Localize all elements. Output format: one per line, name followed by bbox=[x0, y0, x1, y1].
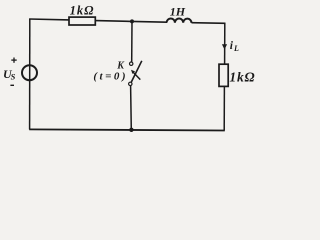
wire: left branch vertical (Us branch) bbox=[29, 19, 31, 129]
switch K motion arrow head bbox=[131, 70, 135, 74]
switch K blade (open position) bbox=[131, 61, 142, 83]
wire: switch branch, node A down to switch top contact bbox=[131, 21, 133, 62]
svg-text:1H: 1H bbox=[170, 4, 186, 18]
node A junction dot (top of switch branch) bbox=[130, 19, 134, 23]
wire: top, R1 to node A bbox=[95, 20, 132, 23]
wire: top, inductor to right corner bbox=[192, 22, 226, 25]
svg-text:1kΩ: 1kΩ bbox=[70, 4, 95, 18]
wire: right branch, corner down to R2 bbox=[224, 23, 226, 64]
resistor R2 1kOhm body (right branch) bbox=[219, 64, 228, 86]
wire: right branch, R2 down to bottom corner bbox=[223, 86, 225, 131]
voltage source Us circle bbox=[22, 65, 37, 80]
resistor R1 1kOhm body bbox=[69, 17, 95, 25]
switch K top contact bbox=[130, 62, 133, 65]
current arrow iL head bbox=[222, 44, 227, 49]
wire: top, node A to inductor L bbox=[132, 20, 167, 23]
node B junction dot (bottom of switch branch) bbox=[129, 128, 133, 132]
svg-text:L: L bbox=[233, 44, 239, 53]
source polarity plus bbox=[11, 59, 16, 61]
source polarity minus bbox=[10, 84, 14, 86]
wire: bottom rail bbox=[29, 129, 225, 130]
svg-text:(t=0): (t=0) bbox=[93, 70, 128, 82]
svg-text:1kΩ: 1kΩ bbox=[229, 69, 255, 84]
switch K motion arrow shaft bbox=[133, 72, 141, 80]
wire: top, left corner to R1 bbox=[29, 18, 69, 21]
svg-text:S: S bbox=[11, 72, 16, 82]
switch K bottom contact bbox=[129, 82, 132, 85]
inductor L 1H coils bbox=[167, 18, 192, 22]
wire: switch branch, bottom contact to node B bbox=[130, 86, 133, 130]
